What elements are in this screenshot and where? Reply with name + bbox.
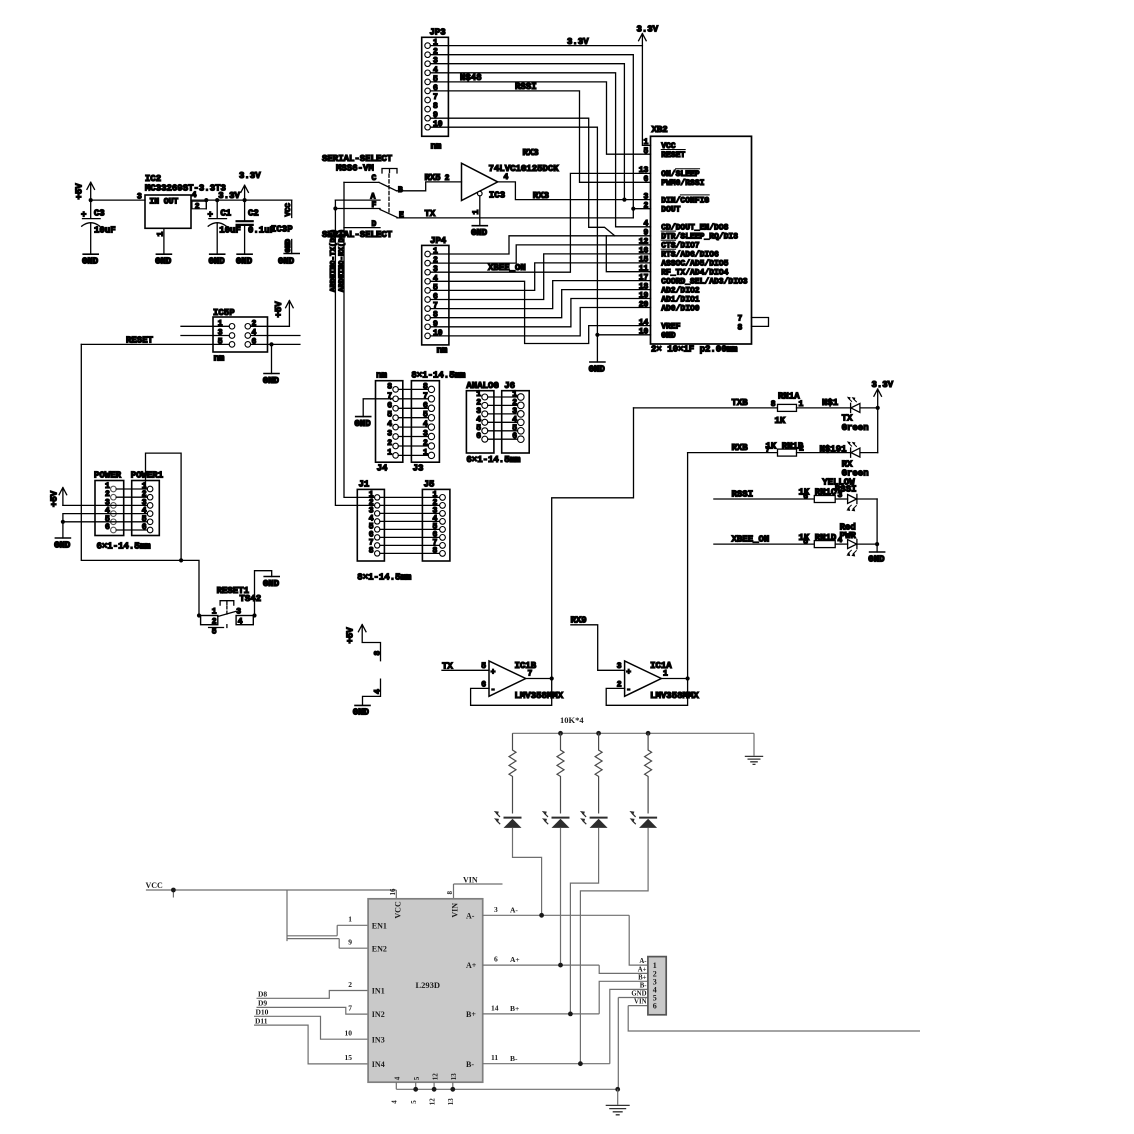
- svg-text:2: 2: [445, 174, 450, 183]
- svg-text:GND: GND: [263, 376, 280, 386]
- svg-text:RSSI: RSSI: [732, 489, 754, 499]
- resistor RN1B: [765, 441, 804, 456]
- svg-text:6: 6: [494, 955, 498, 964]
- resistor RN1A: [771, 392, 804, 426]
- resistor RN1D: [799, 533, 843, 548]
- svg-text:8: 8: [433, 102, 438, 111]
- svg-text:A+: A+: [638, 966, 647, 973]
- svg-text:GND: GND: [54, 540, 71, 550]
- wire to ground: [271, 344, 273, 373]
- svg-text:3.3V: 3.3V: [567, 37, 589, 47]
- svg-text:3: 3: [643, 192, 648, 201]
- svg-text:8: 8: [771, 400, 776, 409]
- svg-text:EN2: EN2: [372, 944, 387, 953]
- svg-text:15: 15: [345, 1053, 353, 1062]
- svg-text:C3: C3: [94, 208, 105, 218]
- svg-text:2: 2: [212, 618, 217, 627]
- 3.3V supply arrow: [239, 171, 261, 200]
- node junction at C2 / 3.3V arrow: [243, 198, 247, 202]
- wire L293D pin6 A+: [483, 965, 648, 973]
- wire LED col1 to A-: [513, 828, 542, 915]
- wire GND to POWER row4: [63, 514, 147, 538]
- op-amp IC1B: [442, 661, 564, 701]
- wire RESET net to IC5P pin5: [81, 343, 229, 345]
- wire GND to POWER row5: [63, 521, 147, 523]
- JP4 pin circles: [425, 251, 431, 339]
- node junction A+: [558, 963, 563, 968]
- wire LED col3 to B+: [570, 828, 598, 1014]
- svg-text:4: 4: [192, 191, 197, 200]
- svg-text:VCC: VCC: [285, 202, 293, 216]
- node junction at C3: [89, 198, 93, 202]
- ground at RESET1: [263, 577, 280, 589]
- JP3 pin numbers: [433, 39, 443, 130]
- wire RXB net from IC1A to LED row: [687, 453, 689, 679]
- ground under IC3P: [278, 254, 299, 267]
- wire JP4.10 to XB2 AD0: [430, 308, 650, 336]
- wire switch C contact: [344, 181, 379, 183]
- wire J4 pin7 to ground: [363, 399, 393, 417]
- resistor R3 (10K): [595, 733, 602, 813]
- +5V arrow at IC5P: [274, 301, 293, 327]
- ground at POWER: [54, 538, 71, 550]
- svg-text:A+: A+: [466, 961, 477, 970]
- svg-text:4: 4: [238, 618, 243, 627]
- svg-text:RX9: RX9: [571, 616, 587, 626]
- capacitor C1: [208, 200, 241, 254]
- svg-text:3.3V: 3.3V: [872, 380, 894, 390]
- wire RN1A to LED: [797, 407, 851, 409]
- svg-text:7: 7: [348, 1003, 352, 1012]
- svg-text:N$191: N$191: [820, 445, 848, 455]
- header POWER: [94, 470, 151, 551]
- svg-text:3: 3: [137, 193, 142, 202]
- svg-text:TS42: TS42: [240, 594, 262, 604]
- wires J4 to J3 rows: [398, 389, 428, 455]
- wire RN1C to LED: [835, 498, 847, 500]
- svg-text:J3: J3: [413, 464, 424, 474]
- JP4 pin numbers: [433, 247, 443, 338]
- svg-text:19: 19: [639, 291, 649, 300]
- ground at J4: [354, 417, 371, 429]
- svg-text:5: 5: [218, 338, 223, 347]
- wires POWER to POWER1 rows: [116, 489, 147, 530]
- svg-text:1: 1: [643, 138, 648, 147]
- svg-text:A-: A-: [639, 958, 647, 965]
- svg-text:6×1-14.5mm: 6×1-14.5mm: [466, 455, 521, 465]
- svg-text:10uF: 10uF: [94, 226, 116, 236]
- wire JP4.1 to XB2 pin9: [430, 236, 650, 254]
- bottom pin number labels below bus: [391, 1098, 456, 1106]
- wire L293D pin8: [453, 884, 455, 899]
- wire JP3.9 to XB2 pin9: [430, 118, 614, 236]
- wire D9 to IN2: [257, 1007, 369, 1014]
- svg-text:IC1A: IC1A: [650, 661, 672, 671]
- svg-text:11: 11: [491, 1053, 498, 1062]
- wire ARDUINO-TX vertical (A-F to J1 pin2): [335, 200, 374, 505]
- wire IC1B feedback: [471, 679, 552, 706]
- svg-text:GND: GND: [285, 238, 293, 252]
- svg-text:ANALOG J6: ANALOG J6: [466, 381, 515, 391]
- svg-text:AD2/DIO2: AD2/DIO2: [661, 286, 700, 295]
- svg-text:14: 14: [491, 1003, 499, 1012]
- wire JP3.10 to XB2 GND: [430, 127, 597, 362]
- svg-text:J5: J5: [424, 480, 435, 490]
- svg-text:15: 15: [639, 256, 649, 265]
- JP3 pin circles: [425, 43, 431, 130]
- motor connector labels: [631, 958, 647, 1006]
- svg-text:7: 7: [433, 93, 438, 102]
- svg-text:+: +: [491, 668, 496, 677]
- svg-text:VIN: VIN: [451, 903, 460, 918]
- wire JP3.6 RSSI to XB2 PWM0: [430, 91, 650, 182]
- wire switch E TX to DOUT: [397, 217, 633, 219]
- svg-text:ARDUINO-TX(D1): ARDUINO-TX(D1): [330, 229, 338, 292]
- svg-text:5: 5: [410, 1100, 418, 1104]
- L293D labels: [372, 901, 477, 1080]
- svg-text:DOUT: DOUT: [661, 206, 680, 215]
- wire IC2 pin4 output 3.3V rail: [191, 199, 292, 201]
- svg-text:2: 2: [387, 439, 392, 448]
- svg-text:+: +: [208, 210, 213, 220]
- svg-text:2: 2: [643, 202, 648, 211]
- svg-text:GND: GND: [155, 257, 172, 267]
- node junction RESET1 right: [252, 613, 256, 617]
- wire D10 to IN3: [254, 1016, 368, 1039]
- svg-text:AD1/DIO1: AD1/DIO1: [661, 295, 700, 304]
- svg-text:16: 16: [389, 888, 397, 896]
- svg-text:ARDUINO-RX(D0): ARDUINO-RX(D0): [339, 229, 347, 292]
- svg-text:IN3: IN3: [372, 1035, 385, 1044]
- header J1: [357, 480, 412, 583]
- wire EN1: [337, 925, 368, 936]
- wire IC1A output: [661, 678, 687, 680]
- wire switch F contact: [335, 208, 380, 210]
- ground under IC3 enable: [471, 226, 488, 238]
- header ANALOG J6 left: [466, 381, 521, 465]
- svg-text:6: 6: [476, 432, 481, 441]
- svg-text:EN1: EN1: [372, 921, 387, 930]
- wire JP4.5 to XB2 ASSOC: [430, 263, 650, 291]
- svg-text:IC5P: IC5P: [213, 308, 235, 318]
- wire LED row3 RSSI: [714, 498, 814, 500]
- svg-text:8: 8: [369, 546, 374, 555]
- svg-text:PWR: PWR: [840, 531, 857, 541]
- wire IC1A feedback: [606, 679, 687, 706]
- svg-text:RX3: RX3: [533, 191, 549, 201]
- svg-text:13: 13: [447, 1098, 455, 1106]
- svg-text:13: 13: [450, 1073, 458, 1081]
- svg-text:8: 8: [738, 323, 743, 332]
- wire +5V to POWER row3: [63, 504, 147, 506]
- svg-text:IC1B: IC1B: [515, 661, 537, 671]
- svg-text:RX3: RX3: [523, 148, 539, 158]
- header ANALOG J6 right: [502, 391, 530, 453]
- svg-text:10: 10: [345, 1029, 353, 1038]
- svg-text:10K*4: 10K*4: [560, 715, 584, 725]
- svg-text:74LVC1G125DCK: 74LVC1G125DCK: [489, 164, 560, 174]
- svg-text:D11: D11: [255, 1016, 268, 1025]
- ground under XB2: [589, 362, 606, 374]
- svg-text:GND: GND: [278, 257, 295, 267]
- wire L293D pin14 B+: [483, 981, 648, 1014]
- svg-text:B-: B-: [510, 1054, 518, 1063]
- node junction A-: [539, 913, 544, 918]
- svg-text:J4: J4: [377, 464, 388, 474]
- svg-text:12: 12: [639, 238, 649, 247]
- svg-text:ON/SLEEP: ON/SLEEP: [661, 170, 700, 179]
- wire RESET to POWER1 pin1: [146, 453, 182, 560]
- svg-text:6: 6: [105, 523, 110, 532]
- wire connector VIN stub: [628, 1006, 920, 1031]
- node junction at F: [333, 206, 337, 210]
- wire JP3.4 to XB2 pin4: [430, 73, 650, 227]
- wire JP4.8 to XB2 AD2: [430, 290, 650, 318]
- svg-text:6: 6: [653, 1002, 657, 1011]
- svg-text:+5V: +5V: [274, 301, 284, 318]
- svg-text:4: 4: [373, 689, 382, 694]
- svg-text:4: 4: [387, 420, 392, 429]
- wire IC3 output RX3 to XB2 DIN: [498, 182, 651, 200]
- wire IC2 pin2 loop to output: [205, 200, 207, 209]
- ground under IC5P: [263, 374, 280, 386]
- header J3: [411, 370, 466, 473]
- wire ground bus drop: [617, 1089, 619, 1105]
- op-amp supply pin4 to ground: [363, 679, 383, 705]
- svg-text:IN1: IN1: [372, 987, 385, 996]
- wire JP4.6 to XB2 RTS: [430, 254, 650, 300]
- header POWER1: [131, 470, 164, 535]
- wire LED row1 TXB: [634, 407, 778, 409]
- wire 3.3V rail down to RXB row: [877, 408, 879, 453]
- svg-text:5: 5: [212, 628, 217, 637]
- wire to LED ground: [876, 544, 878, 552]
- header J5: [422, 480, 450, 561]
- header IC5P (ICSP): [213, 308, 268, 364]
- wire JP4.9 to XB2 AD1: [430, 299, 650, 327]
- svg-text:1: 1: [387, 448, 392, 457]
- motor connector body: [648, 957, 666, 1015]
- wire L293D pin16: [395, 890, 397, 899]
- svg-text:4: 4: [504, 173, 509, 182]
- svg-text:2× 10×1F p2.00mm: 2× 10×1F p2.00mm: [651, 345, 738, 355]
- svg-text:IN2: IN2: [372, 1010, 385, 1019]
- wire RX9 stub to IC1A pin3: [571, 625, 625, 671]
- wire IC5P pin1 stub: [181, 325, 229, 327]
- ground under C1: [209, 254, 226, 266]
- svg-text:L293D: L293D: [416, 980, 441, 990]
- svg-text:6: 6: [643, 175, 648, 184]
- +5V arrow at POWER: [50, 488, 67, 508]
- svg-text:IC3: IC3: [489, 190, 505, 200]
- svg-text:J1: J1: [359, 480, 370, 490]
- svg-text:GND: GND: [353, 708, 370, 718]
- 3.3V arrow top right: [637, 25, 659, 46]
- svg-text:GND: GND: [209, 257, 226, 267]
- wire JP4.4 to XB2 VREF: [430, 281, 650, 343]
- XB2 pin numbers: [639, 138, 649, 336]
- svg-text:RX5: RX5: [425, 173, 441, 183]
- svg-text:POWER1: POWER1: [131, 470, 164, 480]
- svg-text:GND: GND: [589, 364, 606, 374]
- header JP4: [422, 236, 449, 355]
- svg-text:4: 4: [391, 1100, 399, 1104]
- svg-text:VCC: VCC: [146, 881, 164, 890]
- wire JP4.2 to XB2 CTS: [430, 245, 650, 263]
- wire D11 to IN4: [254, 1025, 368, 1064]
- op-amp IC1A: [571, 616, 700, 702]
- L293D chip body: [368, 899, 483, 1082]
- svg-text:B+: B+: [466, 1010, 476, 1019]
- svg-text:A-: A-: [510, 905, 518, 914]
- wire IC1B output: [526, 678, 552, 680]
- svg-text:5: 5: [643, 147, 648, 156]
- wire ARDUINO-RX vertical (C-D to J1 pin1): [344, 182, 375, 497]
- svg-text:-: -: [626, 686, 631, 695]
- resistor R2 (10K): [557, 733, 564, 813]
- svg-text:nm: nm: [437, 345, 448, 355]
- wire RN1D to LED: [835, 543, 847, 545]
- svg-text:POWER: POWER: [94, 470, 122, 480]
- svg-text:6: 6: [803, 492, 808, 501]
- svg-text:MC33269ST-3.3T3: MC33269ST-3.3T3: [145, 183, 226, 193]
- LED D4: [629, 811, 657, 828]
- ground LED rows: [868, 552, 885, 564]
- svg-text:3.3V: 3.3V: [637, 25, 659, 35]
- wire IC5P pin4 stub: [251, 335, 300, 337]
- wire pullup top rail: [513, 733, 755, 756]
- wire RESET1 left pin: [199, 615, 201, 617]
- IC3P power pins: [271, 200, 293, 253]
- POWER circles and numbers: [111, 486, 117, 533]
- svg-text:XBEE_ON: XBEE_ON: [732, 534, 770, 544]
- svg-text:C1: C1: [220, 208, 231, 218]
- node junction POWER GND: [61, 520, 65, 524]
- wire JP3.2 to XB2 DOUT and TX: [430, 55, 633, 218]
- LED D1 (motor indicator): [494, 811, 522, 828]
- LED Red PWR: [840, 523, 878, 557]
- svg-text:PWM0/RSSI: PWM0/RSSI: [661, 179, 704, 188]
- wires J1 to J5 rows: [380, 497, 439, 553]
- svg-text:RESET: RESET: [661, 151, 685, 160]
- svg-text:GND: GND: [471, 228, 488, 238]
- voltage regulator IC2 MC33269ST-3.3T3: [137, 174, 226, 236]
- svg-text:5: 5: [387, 411, 392, 420]
- svg-text:11: 11: [639, 265, 649, 274]
- svg-text:A+: A+: [510, 955, 520, 964]
- svg-text:nm: nm: [431, 141, 442, 151]
- svg-text:ASSOC/AD5/DIO5: ASSOC/AD5/DIO5: [661, 260, 728, 269]
- svg-text:12: 12: [431, 1073, 439, 1081]
- svg-text:B-: B-: [640, 982, 648, 989]
- wire IC2 pin1 to ground: [163, 228, 165, 254]
- svg-text:8: 8: [446, 891, 454, 895]
- svg-text:XB2: XB2: [652, 125, 668, 135]
- wire LED col2 to A+: [560, 828, 562, 965]
- svg-text:3: 3: [387, 430, 392, 439]
- XB2 right pins 7 8: [752, 318, 769, 327]
- switch SERIAL-SELECT MSS6-VM: [322, 154, 404, 240]
- wire switch B to RX5 / IC3 input: [397, 182, 462, 191]
- node junction RESET1 left: [197, 613, 201, 617]
- svg-text:GND: GND: [354, 419, 371, 429]
- svg-text:RSSI: RSSI: [515, 82, 537, 92]
- resistor R1 (10K): [509, 733, 516, 813]
- svg-text:D8: D8: [258, 990, 267, 999]
- svg-text:E: E: [399, 211, 404, 220]
- LED D3: [580, 811, 608, 828]
- LED RX Green: [842, 441, 878, 478]
- node junction XB2 GND row: [595, 333, 599, 337]
- L293D left pin numbers: [345, 915, 353, 1063]
- 3.3V arrow LED rail: [872, 380, 894, 408]
- svg-text:B+: B+: [510, 1004, 519, 1013]
- node junction LED GND: [875, 542, 879, 546]
- wire D8 to IN1: [257, 991, 369, 999]
- svg-text:C2: C2: [248, 208, 259, 218]
- op-amp supply +5V arrow: [346, 625, 383, 661]
- wire EN2: [339, 939, 368, 949]
- svg-text:5: 5: [803, 537, 808, 546]
- wire JP4.7 to XB2 COORD_SEL: [430, 281, 650, 309]
- node junction 3.3V LED rail: [876, 406, 880, 410]
- svg-text:GND: GND: [263, 579, 280, 589]
- svg-text:8: 8: [373, 651, 382, 656]
- XB2 overlines: [661, 150, 709, 250]
- node junction DOUT: [631, 207, 635, 211]
- wires J6 rows: [488, 397, 518, 439]
- XBee module XB2: [651, 125, 752, 355]
- svg-text:D10: D10: [256, 1008, 269, 1017]
- svg-text:GND: GND: [82, 257, 99, 267]
- wire XB2 DOUT row: [633, 208, 650, 210]
- node junction DIN: [622, 198, 626, 202]
- ground under IC2 pin1: [155, 254, 172, 266]
- svg-text:12: 12: [428, 1098, 436, 1106]
- LED TX Green: [842, 397, 878, 433]
- svg-text:VCC: VCC: [393, 901, 402, 919]
- svg-text:RXB: RXB: [732, 443, 749, 453]
- svg-text:+5V: +5V: [346, 627, 356, 644]
- node junction IC5P pin6 to GND: [269, 342, 273, 346]
- svg-text:B-: B-: [466, 1060, 474, 1069]
- XB2 pin labels: [661, 142, 748, 340]
- svg-text:LMV358MMX: LMV358MMX: [515, 691, 564, 701]
- svg-text:6: 6: [252, 338, 257, 347]
- svg-text:nm: nm: [214, 354, 225, 364]
- node junction IC1B output: [550, 676, 554, 680]
- svg-text:MSS6-VM: MSS6-VM: [336, 163, 374, 173]
- svg-text:TX: TX: [425, 209, 436, 219]
- svg-text:2: 2: [348, 980, 352, 989]
- node junction IC2 out: [204, 198, 208, 202]
- header J4: [376, 370, 403, 473]
- svg-text:RN1A: RN1A: [778, 392, 800, 402]
- wire XB2 pin10 row: [597, 334, 650, 336]
- wire JP3.1 to 3.3V and XB2 VCC: [430, 46, 650, 146]
- ground op-amp supply: [353, 705, 370, 717]
- wire rail row3 to row4: [876, 499, 878, 544]
- wire VCC rail: [146, 890, 396, 898]
- svg-text:3: 3: [494, 905, 498, 914]
- node junction IC1A output: [686, 676, 690, 680]
- wire L293D pin11 B-: [483, 989, 648, 1063]
- svg-text:COORD_SEL/AD3/DIO3: COORD_SEL/AD3/DIO3: [661, 277, 748, 286]
- svg-text:DIN/CONFIG: DIN/CONFIG: [661, 196, 709, 205]
- svg-text:-: -: [491, 686, 496, 695]
- svg-text:7: 7: [738, 314, 743, 323]
- wire connector GND riser: [618, 998, 648, 1090]
